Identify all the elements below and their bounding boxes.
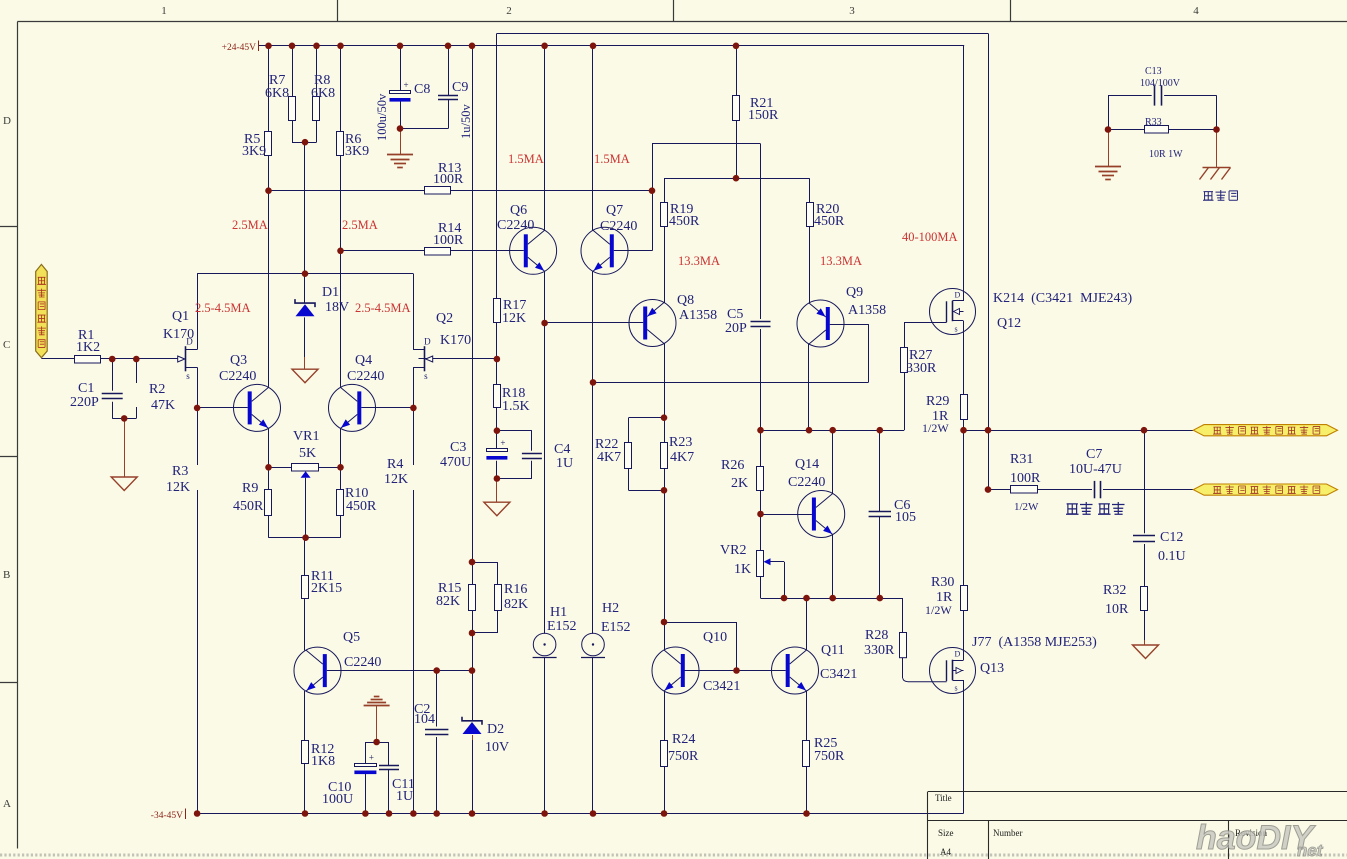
svg-text:C4: C4 <box>554 442 570 457</box>
svg-text:1/2W: 1/2W <box>922 421 949 435</box>
svg-text:450R: 450R <box>669 214 700 229</box>
svg-text:D: D <box>955 650 961 659</box>
svg-text:D1: D1 <box>322 285 339 300</box>
svg-text:Title: Title <box>935 793 952 803</box>
svg-text:1U: 1U <box>556 456 573 471</box>
svg-text:1/2W: 1/2W <box>925 603 952 617</box>
svg-text:H2: H2 <box>602 601 619 616</box>
svg-text:2.5-4.5MA: 2.5-4.5MA <box>355 301 411 315</box>
svg-text:E152: E152 <box>601 620 631 635</box>
svg-text:s: s <box>424 371 428 381</box>
svg-text:A1358: A1358 <box>679 308 717 323</box>
svg-text:4K7: 4K7 <box>670 450 694 465</box>
svg-text:VR2: VR2 <box>720 543 746 558</box>
svg-text:6K8: 6K8 <box>311 86 335 101</box>
svg-text:R28: R28 <box>865 628 888 643</box>
svg-text:Q12: Q12 <box>997 316 1021 331</box>
svg-text:470U: 470U <box>440 455 471 470</box>
svg-text:1U: 1U <box>396 789 413 804</box>
svg-text:13.3MA: 13.3MA <box>678 254 720 268</box>
svg-text:1.5MA: 1.5MA <box>508 152 544 166</box>
svg-text:R31: R31 <box>1010 452 1033 467</box>
svg-text:C8: C8 <box>414 82 430 97</box>
svg-text:Q1: Q1 <box>172 309 189 324</box>
svg-text:1/2W: 1/2W <box>1014 501 1039 513</box>
svg-text:1u/50v: 1u/50v <box>459 104 473 139</box>
svg-text:J77 (A1358 MJE253): J77 (A1358 MJE253) <box>972 635 1097 650</box>
svg-text:10R: 10R <box>1105 602 1129 617</box>
svg-text:+: + <box>500 438 505 448</box>
svg-text:18V: 18V <box>325 300 349 315</box>
svg-text:R16: R16 <box>504 582 527 597</box>
svg-text:10R 1W: 10R 1W <box>1149 149 1183 160</box>
svg-text:B: B <box>3 569 10 581</box>
svg-text:K214 (C3421 MJE243): K214 (C3421 MJE243) <box>993 291 1133 306</box>
svg-text:D2: D2 <box>487 722 504 737</box>
svg-text:+: + <box>404 80 409 90</box>
svg-text:750R: 750R <box>814 749 845 764</box>
svg-text:+: + <box>369 753 374 763</box>
svg-text:1K8: 1K8 <box>311 754 335 769</box>
svg-text:R24: R24 <box>672 732 695 747</box>
svg-text:450R: 450R <box>814 214 845 229</box>
svg-text:2.5-4.5MA: 2.5-4.5MA <box>195 301 251 315</box>
svg-text:12K: 12K <box>502 311 526 326</box>
svg-text:6K8: 6K8 <box>265 86 289 101</box>
svg-text:K170: K170 <box>163 327 194 342</box>
svg-text:82K: 82K <box>504 597 528 612</box>
svg-text:C2240: C2240 <box>347 369 384 384</box>
svg-text:100R: 100R <box>433 172 464 187</box>
svg-text:A1358: A1358 <box>848 303 886 318</box>
svg-text:E152: E152 <box>547 619 577 634</box>
svg-text:C13: C13 <box>1145 66 1162 77</box>
svg-text:1: 1 <box>161 5 167 17</box>
svg-text:100u/50v: 100u/50v <box>375 93 389 141</box>
svg-text:A: A <box>3 798 11 810</box>
svg-text:100U: 100U <box>322 792 353 807</box>
svg-text:C: C <box>3 339 10 351</box>
svg-text:4K7: 4K7 <box>597 450 621 465</box>
svg-text:R32: R32 <box>1103 583 1126 598</box>
svg-text:C3421: C3421 <box>820 667 857 682</box>
svg-text:R29: R29 <box>926 394 949 409</box>
svg-text:1.5K: 1.5K <box>502 399 530 414</box>
svg-text:40-100MA: 40-100MA <box>902 230 958 244</box>
svg-text:Q7: Q7 <box>606 203 623 218</box>
svg-text:D: D <box>955 291 961 300</box>
svg-text:D: D <box>424 337 431 347</box>
svg-text:s: s <box>955 325 958 334</box>
svg-text:D: D <box>3 115 11 127</box>
svg-text:Q13: Q13 <box>980 661 1004 676</box>
svg-text:330R: 330R <box>864 643 895 658</box>
svg-text:3: 3 <box>849 5 855 17</box>
svg-text:C3421: C3421 <box>703 679 740 694</box>
svg-text:R30: R30 <box>931 575 954 590</box>
svg-text:2.5MA: 2.5MA <box>232 218 268 232</box>
svg-text:net: net <box>1297 841 1324 859</box>
svg-text:R23: R23 <box>669 435 692 450</box>
svg-text:1.5MA: 1.5MA <box>594 152 630 166</box>
svg-text:330R: 330R <box>906 361 937 376</box>
svg-text:R4: R4 <box>387 457 403 472</box>
svg-text:+24-45V: +24-45V <box>222 43 257 53</box>
svg-text:20P: 20P <box>725 321 747 336</box>
svg-text:H1: H1 <box>550 605 567 620</box>
svg-text:C2240: C2240 <box>344 655 381 670</box>
svg-text:10U-47U: 10U-47U <box>1069 462 1122 477</box>
svg-text:Size: Size <box>938 828 954 838</box>
svg-text:450R: 450R <box>346 499 377 514</box>
svg-text:R26: R26 <box>721 458 744 473</box>
svg-text:Q11: Q11 <box>821 643 845 658</box>
svg-text:Q6: Q6 <box>510 203 527 218</box>
svg-text:R3: R3 <box>172 464 188 479</box>
svg-text:C3: C3 <box>450 440 466 455</box>
svg-text:C2240: C2240 <box>600 219 637 234</box>
svg-text:C9: C9 <box>452 80 468 95</box>
svg-text:Q4: Q4 <box>355 353 372 368</box>
svg-text:4: 4 <box>1193 5 1199 17</box>
svg-text:Number: Number <box>993 828 1023 838</box>
svg-text:Q5: Q5 <box>343 630 360 645</box>
svg-text:R33: R33 <box>1145 117 1162 128</box>
svg-text:750R: 750R <box>668 749 699 764</box>
svg-text:100R: 100R <box>1010 471 1041 486</box>
svg-text:Q9: Q9 <box>846 285 863 300</box>
svg-text:2K: 2K <box>731 476 748 491</box>
svg-text:2.5MA: 2.5MA <box>342 218 378 232</box>
svg-text:5K: 5K <box>299 446 316 461</box>
svg-text:R9: R9 <box>242 481 258 496</box>
svg-text:Q8: Q8 <box>677 293 694 308</box>
svg-text:Q10: Q10 <box>703 630 727 645</box>
svg-text:2K15: 2K15 <box>311 581 342 596</box>
svg-text:C12: C12 <box>1160 530 1183 545</box>
svg-text:C5: C5 <box>727 307 743 322</box>
svg-text:82K: 82K <box>436 594 460 609</box>
svg-text:0.1U: 0.1U <box>1158 549 1186 564</box>
svg-text:s: s <box>955 684 958 693</box>
svg-text:Q2: Q2 <box>436 311 453 326</box>
svg-text:1K2: 1K2 <box>76 340 100 355</box>
svg-text:C2240: C2240 <box>219 369 256 384</box>
svg-text:VR1: VR1 <box>293 429 319 444</box>
svg-text:s: s <box>186 371 190 381</box>
svg-text:-34-45V: -34-45V <box>151 811 183 821</box>
svg-text:A4: A4 <box>940 847 951 857</box>
svg-text:Q3: Q3 <box>230 353 247 368</box>
svg-text:10V: 10V <box>485 740 509 755</box>
svg-text:12K: 12K <box>166 480 190 495</box>
svg-text:1K: 1K <box>734 562 751 577</box>
svg-text:Q14: Q14 <box>795 457 819 472</box>
svg-text:12K: 12K <box>384 472 408 487</box>
svg-text:C2240: C2240 <box>788 475 825 490</box>
svg-text:3K9: 3K9 <box>345 144 369 159</box>
svg-text:104/100V: 104/100V <box>1140 78 1181 89</box>
svg-text:C2240: C2240 <box>497 218 534 233</box>
svg-text:2: 2 <box>506 5 512 17</box>
svg-text:R2: R2 <box>149 382 165 397</box>
svg-text:C1: C1 <box>78 381 94 396</box>
svg-text:104: 104 <box>414 712 435 727</box>
svg-text:C7: C7 <box>1086 447 1102 462</box>
svg-text:100R: 100R <box>433 233 464 248</box>
svg-text:3K9: 3K9 <box>242 144 266 159</box>
svg-text:13.3MA: 13.3MA <box>820 254 862 268</box>
svg-text:220P: 220P <box>70 395 99 410</box>
svg-text:K170: K170 <box>440 333 471 348</box>
svg-text:105: 105 <box>895 510 916 525</box>
svg-text:450R: 450R <box>233 499 264 514</box>
svg-text:150R: 150R <box>748 108 779 123</box>
svg-text:47K: 47K <box>151 398 175 413</box>
